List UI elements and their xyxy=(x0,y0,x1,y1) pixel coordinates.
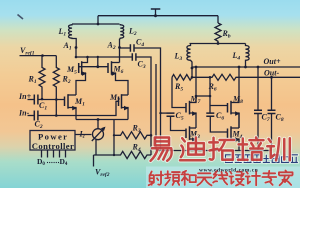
watermark small char zhuan xyxy=(262,171,276,185)
current source Ic xyxy=(79,127,106,141)
VDD supply T symbol xyxy=(151,9,161,17)
wire interstage column xyxy=(209,77,211,112)
wire L1/L2 top bar xyxy=(72,23,120,25)
capacitor C7 xyxy=(254,67,270,151)
watermark big char yi xyxy=(151,137,172,160)
wire C6 to M4 gate xyxy=(210,116,227,132)
node A1 xyxy=(63,41,78,52)
inductor L2 xyxy=(120,24,137,48)
wire A1 to C3 xyxy=(76,56,132,58)
wire Vref2 stub xyxy=(94,155,115,178)
wire middle column xyxy=(155,64,157,151)
resistor R1 xyxy=(28,56,46,101)
transistor M2 xyxy=(109,93,129,120)
watermark small char tian xyxy=(197,173,211,185)
transistor M7 xyxy=(186,67,201,128)
watermark band xyxy=(146,167,300,189)
watermark big char pei xyxy=(238,137,263,159)
capacitor C5 xyxy=(161,111,184,122)
wire M5/M6 gate tie xyxy=(79,56,108,68)
svg-text:www.edworld.com.cn: www.edworld.com.cn xyxy=(199,167,259,173)
resistor R3 xyxy=(113,123,153,139)
capacitor C6 xyxy=(206,111,224,122)
wire In+ xyxy=(28,99,35,101)
wire A2 drop to M6 drain xyxy=(119,48,121,63)
transistor M8 xyxy=(228,66,244,128)
wire rail to Rb xyxy=(217,16,219,23)
node A2 xyxy=(107,41,121,52)
capacitor C8 xyxy=(268,77,284,150)
svg-text:Controller: Controller xyxy=(32,141,74,151)
watermark big char tuo xyxy=(209,138,234,160)
stray mark top-left xyxy=(18,15,24,20)
watermark big char di xyxy=(180,137,205,160)
transistor M1 xyxy=(65,94,86,119)
watermark small char xian xyxy=(213,171,227,184)
wire R3/R4 left tie xyxy=(113,120,115,156)
wire tail node xyxy=(76,118,128,129)
inductor L3 xyxy=(174,44,194,78)
watermark small char jia xyxy=(279,171,293,186)
wire controller to Ic xyxy=(75,134,92,136)
wire C4 to outer column xyxy=(134,48,162,151)
power rail xyxy=(98,15,218,17)
power controller box xyxy=(30,131,75,151)
wire column to R3/R4 xyxy=(150,135,152,155)
wire A1 drop xyxy=(75,48,78,59)
watermark blue caption xyxy=(226,154,298,163)
wire C2 to M2 gate xyxy=(38,101,119,115)
wire Out- line with R5 R6 xyxy=(172,68,300,92)
wire bottom rail xyxy=(156,150,272,152)
watermark small char he xyxy=(181,171,196,185)
watermark small char she2 xyxy=(229,172,243,186)
wire R5 left to M7 gate xyxy=(172,77,186,107)
resistor R4 xyxy=(113,143,151,159)
capacitor C1 xyxy=(34,95,47,112)
input In+ port xyxy=(18,92,32,101)
capacitor C4 xyxy=(130,37,144,51)
resistor R2 xyxy=(53,56,71,117)
input In- port xyxy=(18,108,30,117)
wire C3 to right column xyxy=(136,57,151,135)
wire A2 to C4 xyxy=(120,47,131,49)
resistor Rb xyxy=(215,23,231,45)
transistor M4 xyxy=(228,113,243,151)
watermark big char xun xyxy=(267,138,290,160)
wire C1 to M1 gate xyxy=(38,99,65,101)
watermark small char pin xyxy=(165,171,180,185)
svg-text:Out-: Out- xyxy=(264,68,279,77)
inductor L4 xyxy=(232,44,250,68)
wire M7 drain cross link xyxy=(195,95,212,98)
wire Ic bottom xyxy=(95,140,97,155)
wire C5 to M3 gate xyxy=(171,116,187,130)
wire L3/L4 top bar xyxy=(190,43,246,45)
wire rail drop to L1/L2 xyxy=(97,16,100,26)
wire M8 gate stub xyxy=(210,105,228,107)
wire Out+ line xyxy=(192,57,300,69)
capacitor C3 xyxy=(132,53,146,70)
wire digital input stubs xyxy=(42,150,66,158)
watermark small char she xyxy=(149,171,164,185)
wire In- xyxy=(28,115,35,117)
capacitor C2 xyxy=(34,111,43,130)
watermark small char ji xyxy=(246,171,260,185)
svg-text:Out+: Out+ xyxy=(264,57,281,66)
transistor M3 xyxy=(186,126,200,150)
transistor M5 xyxy=(66,56,89,95)
wire Vref1 bias line xyxy=(20,54,57,57)
transistor M6 xyxy=(108,61,128,95)
inductor L1 xyxy=(58,24,77,48)
